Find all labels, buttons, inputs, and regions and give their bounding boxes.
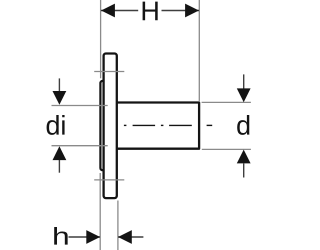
flange upper reference line	[94, 71, 124, 73]
H right arrow	[185, 4, 199, 18]
d bottom arrow	[237, 150, 251, 164]
di bottom arrow	[53, 146, 67, 160]
flange disc	[104, 54, 117, 199]
d top extension line	[202, 101, 251, 103]
pipe spigot body	[117, 103, 199, 149]
di leaders	[58, 78, 60, 91]
H dimension line	[101, 10, 138, 12]
di top extension line	[52, 105, 108, 107]
arrowheads	[53, 4, 251, 244]
h dimension tails	[69, 236, 101, 238]
H left arrow	[101, 4, 115, 18]
flange lower reference line	[94, 179, 124, 181]
d top arrow	[237, 88, 251, 102]
h left extension line	[99, 173, 101, 250]
collar (left boss of flange)	[100, 81, 110, 170]
di top arrow	[53, 91, 67, 105]
label d	[237, 115, 249, 135]
extension lines (gray)	[52, 0, 251, 250]
centerline (dash-dot axis)	[124, 124, 212, 126]
h right arrow	[118, 230, 132, 244]
d leaders	[243, 74, 245, 88]
label H	[143, 2, 158, 21]
di bottom extension line	[52, 145, 108, 147]
h left arrow	[86, 230, 100, 244]
H left extension line	[100, 0, 102, 78]
dimension lines / leaders (dark)	[59, 11, 243, 238]
h right extension line	[117, 201, 119, 250]
H right extension line	[198, 0, 200, 101]
label di	[47, 115, 59, 135]
label h	[54, 227, 67, 245]
d bottom extension line	[202, 148, 251, 150]
